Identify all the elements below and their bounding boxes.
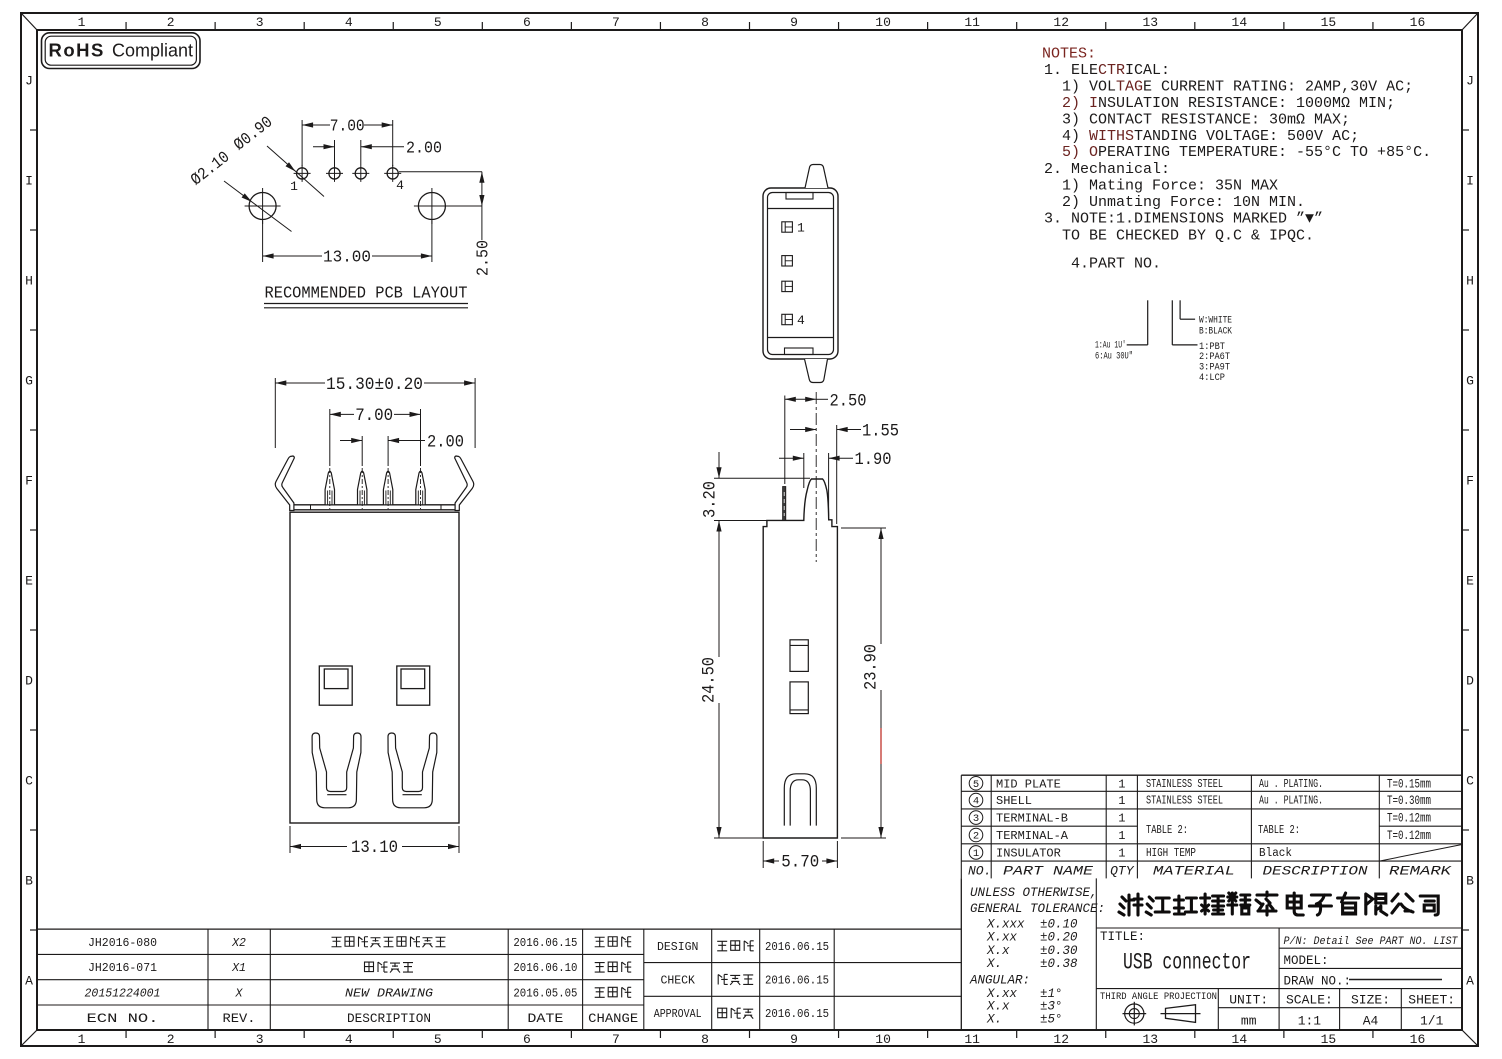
svg-text:11: 11 — [964, 15, 980, 30]
svg-text:1.90: 1.90 — [855, 450, 892, 470]
svg-text:D: D — [1466, 674, 1474, 689]
svg-text:UNIT:: UNIT: — [1229, 993, 1268, 1008]
svg-text:7: 7 — [612, 15, 620, 30]
svg-text:3.20: 3.20 — [701, 481, 721, 518]
svg-text:5: 5 — [434, 15, 442, 30]
red revision mark — [880, 728, 882, 764]
svg-text:5) OPERATING TEMPERATURE: -55°: 5) OPERATING TEMPERATURE: -55°C TO +85°C… — [1062, 144, 1431, 161]
svg-text:I: I — [25, 174, 33, 189]
svg-text:TABLE 2:: TABLE 2: — [1258, 824, 1300, 837]
svg-text:±0.38: ±0.38 — [1040, 957, 1078, 971]
svg-text:1) VOLTAGE CURRENT RATING: 2AM: 1) VOLTAGE CURRENT RATING: 2AMP,30V AC; — [1062, 79, 1413, 96]
svg-text:13: 13 — [1142, 15, 1158, 30]
svg-text:3. NOTE:1.DIMENSIONS MARKED ”▼: 3. NOTE:1.DIMENSIONS MARKED ”▼” — [1044, 211, 1323, 228]
dimension 2.00 (front) — [340, 433, 464, 467]
svg-text:2.00: 2.00 — [427, 433, 464, 453]
svg-text:4: 4 — [797, 313, 805, 328]
svg-text:T=0.12mm: T=0.12mm — [1387, 829, 1431, 843]
dimension 2.00 (PCB) — [313, 139, 442, 166]
svg-text:A4: A4 — [1363, 1014, 1379, 1029]
svg-text:7.00: 7.00 — [330, 117, 365, 136]
front view: right mounting wing — [455, 456, 474, 511]
svg-text:2.50: 2.50 — [474, 240, 493, 276]
svg-text:3) CONTACT RESISTANCE: 30mΩ MA: 3) CONTACT RESISTANCE: 30mΩ MAX; — [1062, 111, 1350, 128]
front view: shell body — [290, 505, 460, 823]
dimension 1.55 (side) — [790, 421, 899, 524]
front view: right spring latch — [388, 733, 437, 808]
svg-text:±0.20: ±0.20 — [1040, 931, 1078, 945]
svg-text:2.00: 2.00 — [406, 139, 442, 158]
svg-text:2) INSULATION RESISTANCE: 1000: 2) INSULATION RESISTANCE: 1000MΩ MIN; — [1062, 95, 1395, 112]
svg-text:J: J — [1466, 74, 1474, 89]
svg-text:GENERAL TOLERANCE:: GENERAL TOLERANCE: — [970, 902, 1105, 916]
svg-text:T=0.12mm: T=0.12mm — [1387, 812, 1431, 826]
svg-text:TABLE 2:: TABLE 2: — [1146, 824, 1188, 837]
svg-text:1: 1 — [1118, 846, 1125, 860]
svg-text:SCALE:: SCALE: — [1286, 993, 1333, 1008]
svg-text:DATE: DATE — [527, 1011, 563, 1026]
parts table grid — [961, 775, 1462, 878]
svg-text:1. ELECTRICAL:: 1. ELECTRICAL: — [1044, 62, 1170, 79]
parts table content — [968, 776, 1453, 878]
svg-text:ANGULAR:: ANGULAR: — [969, 973, 1030, 987]
svg-text:1: 1 — [1118, 812, 1125, 826]
svg-text:X.xx: X.xx — [986, 931, 1018, 945]
svg-text:X.xxx: X.xxx — [986, 918, 1025, 932]
front view: left shell window — [319, 666, 352, 705]
svg-text:9: 9 — [790, 1032, 798, 1047]
svg-text:3: 3 — [973, 813, 979, 825]
svg-text:2: 2 — [167, 15, 175, 30]
svg-text:14: 14 — [1232, 1032, 1248, 1047]
svg-text:Au . PLATING.: Au . PLATING. — [1259, 778, 1323, 791]
svg-text:4:LCP: 4:LCP — [1199, 373, 1225, 384]
svg-text:1: 1 — [1118, 777, 1125, 791]
svg-text:X1: X1 — [231, 962, 246, 975]
svg-text:4) WITHSTANDING VOLTAGE: 500V: 4) WITHSTANDING VOLTAGE: 500V AC; — [1062, 128, 1359, 145]
svg-text:APPROVAL: APPROVAL — [654, 1008, 702, 1021]
svg-text:H: H — [1466, 274, 1474, 289]
dimension 15.30±0.20 (front) — [275, 375, 475, 448]
svg-text:DESCRIPTION: DESCRIPTION — [347, 1011, 431, 1026]
tolerance block text — [969, 886, 1105, 1026]
svg-text:CHECK: CHECK — [660, 974, 695, 987]
svg-text:X.x: X.x — [986, 944, 1010, 958]
svg-text:5: 5 — [973, 779, 979, 791]
front view: right shell window — [397, 666, 430, 705]
svg-text:G: G — [1466, 374, 1474, 389]
svg-text:±5°: ±5° — [1040, 1012, 1063, 1026]
svg-text:NO.: NO. — [968, 863, 991, 878]
svg-text:1: 1 — [78, 1032, 86, 1047]
svg-text:1: 1 — [973, 848, 979, 860]
side view: upper hole — [790, 640, 808, 672]
svg-text:±0.30: ±0.30 — [1040, 944, 1078, 958]
svg-text:15: 15 — [1321, 15, 1337, 30]
svg-text:2016.05.05: 2016.05.05 — [513, 986, 577, 1000]
svg-text:ECN NO.: ECN NO. — [87, 1011, 159, 1026]
svg-text:13.10: 13.10 — [351, 838, 398, 858]
dimension 3.20 (side) — [701, 452, 811, 521]
side view: body outline with latch — [763, 479, 837, 838]
svg-text:1) Mating Force: 35N MAX: 1) Mating Force: 35N MAX — [1062, 178, 1278, 195]
title text — [1100, 930, 1459, 1029]
svg-text:W:WHITE: W:WHITE — [1199, 316, 1232, 327]
svg-text:F: F — [1466, 474, 1474, 489]
svg-text:G: G — [25, 374, 33, 389]
top view: contacts 1-4 — [782, 221, 805, 329]
title block grid — [961, 878, 1462, 1030]
svg-text:8: 8 — [701, 1032, 709, 1047]
svg-text:TERMINAL-A: TERMINAL-A — [996, 829, 1069, 843]
svg-text:1: 1 — [1118, 794, 1125, 808]
svg-text:2016.06.10: 2016.06.10 — [513, 961, 577, 975]
revision table grid — [37, 929, 961, 1030]
svg-text:B: B — [25, 874, 33, 889]
svg-text:10: 10 — [875, 15, 891, 30]
front view: terminals (4 pins) — [325, 468, 425, 509]
dimension 7.00 (PCB) — [302, 117, 393, 167]
dimension 7.00 (front) — [330, 406, 421, 466]
part-number legend diagram — [1095, 300, 1232, 384]
svg-text:4: 4 — [396, 178, 404, 193]
svg-text:15: 15 — [1321, 1032, 1337, 1047]
svg-text:X2: X2 — [231, 937, 246, 950]
svg-text:D: D — [25, 674, 33, 689]
svg-text:QTY: QTY — [1110, 863, 1135, 878]
leader Ø2.10 — [187, 147, 291, 231]
svg-text:Black: Black — [1259, 847, 1292, 860]
svg-text:B: B — [1466, 874, 1474, 889]
svg-text:3:PA9T: 3:PA9T — [1199, 363, 1230, 374]
svg-text:1:1: 1:1 — [1298, 1014, 1322, 1029]
svg-text:RECOMMENDED PCB LAYOUT: RECOMMENDED PCB LAYOUT — [265, 284, 468, 303]
dimension 13.00 (PCB) — [263, 221, 432, 267]
svg-text:MID PLATE: MID PLATE — [996, 777, 1061, 791]
svg-text:J: J — [25, 74, 33, 89]
svg-text:1:Au 1U': 1:Au 1U' — [1095, 340, 1126, 352]
svg-text:JH2016-071: JH2016-071 — [88, 962, 157, 975]
svg-text:P/N: Detail See PART NO. LIST: P/N: Detail See PART NO. LIST — [1284, 936, 1459, 948]
svg-text:2016.06.15: 2016.06.15 — [765, 973, 829, 987]
dimension 1.90 (side) — [779, 450, 892, 516]
svg-text:E: E — [1466, 574, 1474, 589]
notes text block — [1042, 46, 1431, 273]
svg-text:7: 7 — [612, 1032, 620, 1047]
svg-text:16: 16 — [1410, 15, 1426, 30]
front view: left mounting wing — [275, 456, 294, 511]
svg-text:TO BE CHECKED BY Q.C & IPQC.: TO BE CHECKED BY Q.C & IPQC. — [1062, 227, 1314, 244]
dimension 24.50 (side) — [700, 521, 764, 839]
svg-text:9: 9 — [790, 15, 798, 30]
svg-text:12: 12 — [1053, 1032, 1069, 1047]
side view: bottom spring cutout — [784, 774, 816, 826]
PCB layout: mounting holes — [245, 188, 450, 224]
svg-text:6: 6 — [523, 1032, 531, 1047]
svg-text:HIGH TEMP: HIGH TEMP — [1146, 847, 1196, 860]
svg-text:4: 4 — [345, 15, 353, 30]
svg-text:B:BLACK: B:BLACK — [1199, 327, 1232, 338]
svg-text:8: 8 — [701, 15, 709, 30]
svg-text:MATERIAL: MATERIAL — [1153, 863, 1235, 878]
PCB layout: pin holes 1-4 — [290, 165, 404, 194]
svg-text:A: A — [1466, 974, 1474, 989]
svg-text:A: A — [25, 974, 33, 989]
svg-text:SHEET:: SHEET: — [1408, 993, 1455, 1008]
svg-text:T=0.30mm: T=0.30mm — [1387, 794, 1431, 808]
svg-text:4: 4 — [345, 1032, 353, 1047]
svg-text:CHANGE: CHANGE — [588, 1011, 638, 1026]
dimension 2.50 (side) — [785, 391, 867, 484]
leader Ø0.90 — [230, 112, 324, 196]
svg-text:6: 6 — [523, 15, 531, 30]
svg-text:DRAW NO.:: DRAW NO.: — [1284, 974, 1352, 988]
svg-text:1: 1 — [1118, 829, 1125, 843]
svg-text:2: 2 — [973, 831, 979, 843]
top view: shell outline — [763, 188, 838, 359]
svg-text:STAINLESS STEEL: STAINLESS STEEL — [1146, 778, 1223, 791]
label RECOMMENDED PCB LAYOUT — [264, 284, 468, 308]
svg-text:4: 4 — [973, 796, 979, 808]
svg-text:2016.06.15: 2016.06.15 — [513, 936, 577, 950]
svg-text:13.00: 13.00 — [323, 248, 371, 267]
svg-text:4.PART NO.: 4.PART NO. — [1071, 256, 1161, 273]
svg-text:3: 3 — [256, 1032, 264, 1047]
svg-text:X.: X. — [986, 1012, 1002, 1026]
svg-text:5.70: 5.70 — [781, 853, 819, 873]
svg-text:±0.10: ±0.10 — [1040, 918, 1078, 932]
svg-text:USB connector: USB connector — [1123, 950, 1251, 976]
svg-text:DESIGN: DESIGN — [657, 941, 698, 954]
svg-text:14: 14 — [1232, 15, 1248, 30]
svg-text:5: 5 — [434, 1032, 442, 1047]
svg-text:X: X — [235, 987, 244, 1000]
svg-text:INSULATOR: INSULATOR — [996, 846, 1061, 860]
svg-text:2. Mechanical:: 2. Mechanical: — [1044, 161, 1170, 178]
svg-text:2: 2 — [167, 1032, 175, 1047]
svg-text:REV.: REV. — [223, 1011, 256, 1026]
top view: upper mounting tab — [805, 165, 828, 189]
dimension 23.90 (side) — [841, 528, 886, 838]
svg-text:10: 10 — [875, 1032, 891, 1047]
svg-text:DESCRIPTION: DESCRIPTION — [1263, 863, 1368, 878]
svg-text:PART NAME: PART NAME — [1003, 863, 1093, 878]
svg-text:2016.06.15: 2016.06.15 — [765, 1007, 829, 1021]
side view: solder pin — [783, 487, 786, 521]
svg-text:2) Unmating Force: 10N MIN.: 2) Unmating Force: 10N MIN. — [1062, 194, 1305, 211]
svg-text:T=0.15mm: T=0.15mm — [1387, 777, 1431, 791]
svg-text:16: 16 — [1410, 1032, 1426, 1047]
dimension 5.70 (side) — [763, 841, 837, 873]
svg-text:23.90: 23.90 — [862, 644, 882, 690]
svg-text:1: 1 — [290, 179, 298, 194]
svg-text:13: 13 — [1142, 1032, 1158, 1047]
side view: centerline — [815, 392, 817, 562]
svg-text:24.50: 24.50 — [700, 657, 720, 703]
svg-text:E: E — [25, 574, 33, 589]
svg-text:NOTES:: NOTES: — [1042, 46, 1096, 63]
svg-text:X.: X. — [986, 957, 1002, 971]
svg-text:H: H — [25, 274, 33, 289]
svg-text:UNLESS OTHERWISE,: UNLESS OTHERWISE, — [970, 886, 1098, 900]
svg-text:F: F — [25, 474, 33, 489]
svg-text:mm: mm — [1241, 1014, 1257, 1029]
svg-text:C: C — [1466, 774, 1474, 789]
svg-text:3: 3 — [256, 15, 264, 30]
RoHS Compliant badge — [42, 33, 201, 69]
svg-text:1.55: 1.55 — [862, 421, 899, 441]
svg-text:2.50: 2.50 — [830, 391, 867, 411]
svg-text:11: 11 — [964, 1032, 980, 1047]
svg-text:SIZE:: SIZE: — [1351, 993, 1390, 1008]
svg-text:THIRD ANGLE PROJECTION: THIRD ANGLE PROJECTION — [1100, 991, 1217, 1003]
svg-text:RoHS: RoHS — [49, 40, 105, 61]
svg-text:TERMINAL-B: TERMINAL-B — [996, 812, 1068, 826]
revision table text — [85, 936, 829, 1026]
svg-text:2:PA6T: 2:PA6T — [1199, 352, 1230, 363]
svg-text:Compliant: Compliant — [112, 41, 193, 61]
svg-text:1: 1 — [797, 221, 805, 236]
svg-text:STAINLESS STEEL: STAINLESS STEEL — [1146, 795, 1223, 808]
dimension 13.10 (front) — [290, 826, 459, 858]
svg-text:1: 1 — [78, 15, 86, 30]
svg-text:20151224001: 20151224001 — [85, 987, 161, 1000]
front view: left spring latch — [312, 733, 361, 808]
svg-text:C: C — [25, 774, 33, 789]
svg-text:SHELL: SHELL — [996, 794, 1032, 808]
side view: lower hole — [790, 682, 808, 714]
svg-text:TITLE:: TITLE: — [1100, 930, 1145, 944]
svg-text:2016.06.15: 2016.06.15 — [765, 940, 829, 954]
svg-text:7.00: 7.00 — [355, 406, 393, 426]
svg-text:1/1: 1/1 — [1420, 1014, 1444, 1029]
company name (Chinese) — [1119, 892, 1438, 915]
svg-text:REMARK: REMARK — [1389, 863, 1453, 878]
dimension 2.50 (PCB, vertical) — [399, 172, 493, 276]
svg-text:15.30±0.20: 15.30±0.20 — [326, 375, 423, 395]
svg-text:1:PBT: 1:PBT — [1199, 342, 1225, 353]
svg-text:MODEL:: MODEL: — [1284, 954, 1329, 968]
svg-text:I: I — [1466, 174, 1474, 189]
third angle projection symbol — [1123, 1002, 1201, 1026]
svg-text:JH2016-080: JH2016-080 — [88, 937, 157, 950]
svg-text:NEW DRAWING: NEW DRAWING — [345, 986, 434, 1000]
top view: lower mounting tab — [805, 359, 828, 383]
svg-text:Au . PLATING.: Au . PLATING. — [1259, 795, 1323, 808]
svg-text:12: 12 — [1053, 15, 1069, 30]
svg-text:6:Au 30U": 6:Au 30U" — [1095, 351, 1133, 363]
